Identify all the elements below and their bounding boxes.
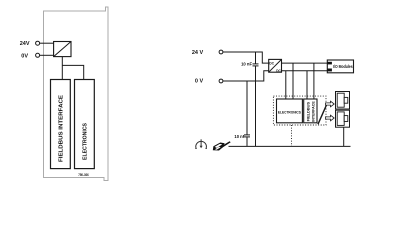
wire DC/DC output to fieldbus interface block (left) — [61, 57, 63, 80]
svg-text:FIELDBUS INTERFACE: FIELDBUS INTERFACE — [59, 95, 65, 162]
svg-text:750-306: 750-306 — [78, 173, 89, 177]
wire coupler to FE rail (dashed) — [291, 125, 293, 146]
svg-text:ELECTRONICS: ELECTRONICS — [82, 123, 88, 160]
svg-text:24V: 24V — [20, 41, 30, 47]
jumper contact pad bottom — [327, 69, 332, 72]
svg-text:FIELDBUS: FIELDBUS — [307, 101, 311, 121]
FE rail (earth line) — [229, 145, 351, 147]
fieldbus port 1 connector — [336, 92, 350, 110]
svg-text:0 V: 0 V — [195, 79, 204, 85]
wire tap to fieldbus interface (bottom rail) — [306, 71, 308, 99]
arrow to fieldbus port 1 — [326, 101, 335, 107]
wire internal supply rail bottom — [282, 70, 328, 72]
svg-text:24 V: 24 V — [192, 50, 204, 56]
svg-text:DC: DC — [269, 62, 274, 66]
svg-text:DC: DC — [276, 69, 281, 73]
terminal 0V (left) — [36, 53, 40, 57]
capacitor C1 10nF (24V to FE) — [253, 52, 259, 66]
DIN rail icon — [213, 141, 231, 150]
DC/DC converter (left diagram) — [54, 42, 71, 57]
svg-text:I/O Modules: I/O Modules — [333, 64, 353, 69]
coupler housing outline (left diagram) — [44, 7, 109, 181]
switch link to fieldbus ports — [318, 104, 327, 124]
svg-text:ELECTRONICS: ELECTRONICS — [278, 110, 301, 115]
functional earth symbol — [195, 139, 207, 148]
wire 0V to DC/DC (left) — [40, 54, 54, 56]
capacitor C2 10nF (0V to FE) — [244, 81, 250, 146]
wire C1 to FE rail — [255, 66, 257, 146]
wire 0V rail to DC/DC input — [223, 71, 269, 81]
fieldbus interface block (right) — [304, 99, 317, 123]
terminal 0V (right) — [219, 79, 223, 83]
wire branch to electronics block (left) — [62, 65, 83, 79]
wire tap to electronics (top rail) — [292, 63, 294, 99]
bus coupler dashed outline — [273, 96, 326, 125]
wire connector shield to FE rail — [343, 127, 345, 146]
svg-text:10 nF: 10 nF — [241, 62, 252, 67]
jumper contact pad top — [327, 62, 332, 65]
fieldbus port 2 connector — [336, 110, 350, 127]
wire tap to electronics (bottom rail) — [285, 71, 287, 99]
svg-text:INTERFACE: INTERFACE — [311, 101, 315, 122]
fieldbus interface block (left) — [51, 80, 71, 169]
I/O modules block — [327, 60, 353, 73]
wire tap to fieldbus interface (top rail) — [313, 63, 315, 99]
svg-text:0V: 0V — [21, 53, 28, 59]
terminal 24V (right) — [219, 50, 223, 54]
wire 24V to DC/DC (left) — [40, 42, 54, 44]
DC/DC converter U1 (right diagram) — [269, 59, 282, 72]
wire 24V rail to DC/DC input — [223, 52, 269, 63]
electronics block (right) — [277, 99, 303, 123]
terminal 24V (left) — [36, 41, 40, 45]
electronics block (left) — [75, 80, 95, 169]
arrow to fieldbus port 2 — [326, 115, 335, 121]
wire internal supply rail top — [282, 62, 328, 64]
